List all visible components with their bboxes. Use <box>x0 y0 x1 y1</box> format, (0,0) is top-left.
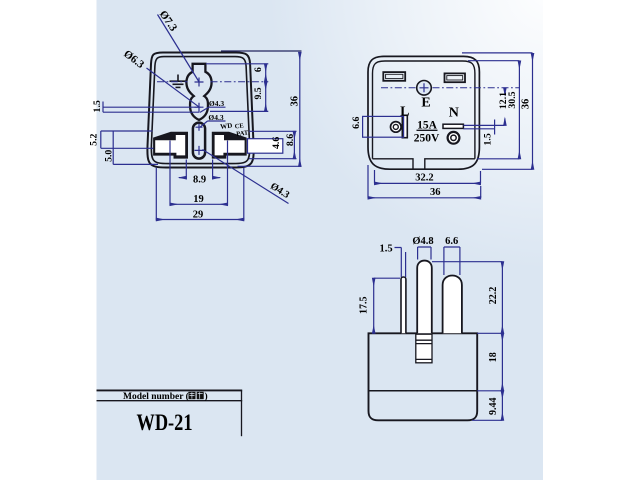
blue drawing panel background <box>97 0 544 480</box>
svg-text:30.5: 30.5 <box>507 91 518 108</box>
back view body outer outline <box>368 56 479 169</box>
svg-text:6.6: 6.6 <box>351 116 362 128</box>
dim 5.2 vline <box>101 131 154 148</box>
svg-text:N: N <box>449 106 459 121</box>
top-left vent inner line <box>386 74 403 78</box>
15A underline <box>417 129 438 131</box>
center stadium slot <box>193 123 205 159</box>
L terminal washer <box>391 122 402 133</box>
center crosses <box>195 78 204 155</box>
right pin <box>443 275 462 333</box>
body bottom extension <box>472 419 502 421</box>
dim 8.9 extension vlines <box>186 160 212 180</box>
svg-text:1.5: 1.5 <box>379 244 392 255</box>
dim 29 extension vlines <box>156 168 244 221</box>
svg-text:5.2: 5.2 <box>89 133 100 145</box>
svg-text:Ø4.3: Ø4.3 <box>209 99 224 108</box>
dim 18 vline <box>501 333 503 391</box>
dim 6 and 9.5 vline <box>265 64 267 112</box>
dim 4.6 white box <box>248 139 283 154</box>
parting line extension <box>477 390 502 392</box>
right 36 vline <box>532 53 534 169</box>
svg-text:8.9: 8.9 <box>193 175 206 186</box>
svg-text:4.6: 4.6 <box>271 137 282 149</box>
right extension line below circle2 <box>210 110 268 112</box>
dim label D6.3 leader <box>147 68 199 107</box>
22.2 top extension <box>432 261 502 263</box>
side view parting line <box>369 390 478 392</box>
left extension line below <box>103 111 200 113</box>
horizontal centerline through top circle <box>157 81 268 83</box>
right extension line top of keyhole <box>206 63 268 65</box>
cross at stadium top <box>196 124 203 131</box>
N bar extension lines <box>463 125 504 128</box>
top-right vent inner line <box>447 76 463 80</box>
svg-text:29: 29 <box>193 209 204 220</box>
svg-text:Model number (: Model number ( <box>123 391 189 402</box>
dim 19 line <box>170 203 228 205</box>
left L/N slot inner opening <box>155 135 185 155</box>
dim 5.0 vline <box>113 131 158 164</box>
dim 36 bottom line <box>368 197 481 199</box>
WD CE PAT micro text <box>220 122 250 138</box>
dim 32.2 line <box>375 182 481 184</box>
right 36 extension lines <box>462 53 533 169</box>
svg-text:WD-21: WD-21 <box>137 410 193 435</box>
L terminal washer inner circle <box>393 124 398 129</box>
svg-text:36: 36 <box>289 96 300 107</box>
top-left vent rectangle <box>383 72 405 81</box>
E screw cross <box>420 83 429 92</box>
CJK glyph 1 <box>189 392 204 399</box>
17.5 top extension <box>374 277 400 279</box>
svg-text:1.5: 1.5 <box>482 133 493 145</box>
svg-text:18: 18 <box>488 352 499 362</box>
svg-text:17.5: 17.5 <box>358 296 369 314</box>
right 36 bottom extension <box>238 165 302 167</box>
dim 1.5 tick <box>494 120 496 135</box>
cross at stadium bottom <box>195 146 204 155</box>
right L/N slot <box>212 132 247 159</box>
svg-text:250V: 250V <box>414 133 440 145</box>
svg-text:36: 36 <box>520 99 531 110</box>
N terminal bar <box>443 124 463 128</box>
right L/N slot inner opening <box>215 135 245 155</box>
dim label D7.3 leader <box>158 15 199 82</box>
body top right extension <box>477 332 502 334</box>
cross at lower circle center <box>195 103 204 112</box>
D4.3 second label underline and leader <box>200 121 226 127</box>
dim 30.5 vline <box>518 61 520 159</box>
svg-text:8.6: 8.6 <box>285 134 296 146</box>
dim 1.5 leader and extension vlines <box>395 248 406 278</box>
dim 8.9 line with arrows <box>179 177 186 179</box>
svg-text:19: 19 <box>193 194 204 205</box>
svg-text:6: 6 <box>253 67 264 72</box>
front view body inner outline <box>151 57 249 164</box>
svg-text:32.2: 32.2 <box>415 173 433 184</box>
svg-text:WD: WD <box>220 122 233 131</box>
side view body <box>369 333 478 420</box>
right 36 top extension <box>221 50 302 52</box>
cross at earth hole center <box>195 78 204 87</box>
front view body outer outline <box>147 53 253 168</box>
N terminal washer inner circle <box>451 135 456 140</box>
dim 29 line <box>156 219 244 221</box>
ground symbol <box>170 75 187 88</box>
earth pin internal base <box>416 334 432 363</box>
svg-text:Ø4.8: Ø4.8 <box>412 236 433 247</box>
back view body inner outline <box>373 61 475 159</box>
E screw circle <box>417 81 432 96</box>
svg-text:E: E <box>421 96 430 111</box>
30.5 extension lines <box>468 61 519 159</box>
L terminal plate <box>402 115 407 137</box>
36 bottom extension vlines <box>368 165 481 198</box>
dim 19 extension vlines <box>170 141 228 206</box>
svg-text:Ø4.3: Ø4.3 <box>208 113 223 122</box>
dim 9.44 vline <box>501 391 503 421</box>
dim 22.2 vline <box>501 262 503 334</box>
svg-text:36: 36 <box>430 187 441 198</box>
middle earth pin <box>417 261 432 334</box>
table right border <box>241 390 243 436</box>
left tick vline 1.5 <box>102 102 104 113</box>
left extension line at circle2 center <box>103 106 201 108</box>
svg-text:1.5: 1.5 <box>92 100 103 112</box>
svg-text:15A: 15A <box>417 119 438 131</box>
dim 6.6 box <box>363 116 404 137</box>
left flat pin <box>401 277 406 333</box>
left L/N slot <box>153 132 188 159</box>
D4.3 upper label underline and leader <box>200 107 226 112</box>
32.2 extension vlines <box>375 170 481 183</box>
svg-text:): ) <box>205 391 208 402</box>
dim 8.6 vline <box>293 131 295 158</box>
dim 6.6 bracket <box>444 247 460 275</box>
table header top rule <box>97 389 243 391</box>
svg-text:9.5: 9.5 <box>253 87 264 99</box>
top-right vent rectangle <box>445 73 466 82</box>
svg-text:22.2: 22.2 <box>488 287 499 305</box>
N terminal washer <box>448 132 460 144</box>
svg-text:6.6: 6.6 <box>445 236 458 247</box>
dim 36 vline <box>299 52 301 166</box>
earth keyhole slot <box>186 64 211 120</box>
table header bottom rule <box>97 400 243 402</box>
dim label D4.3 bottom leader <box>203 150 289 204</box>
dim D4.8 bracket <box>418 247 431 260</box>
dim 12.1 vline <box>504 88 506 95</box>
svg-text:9.44: 9.44 <box>488 398 499 416</box>
back view inner bottom parting line with tab <box>373 159 475 169</box>
dim 8.6 extensions <box>249 131 297 158</box>
svg-text:5.0: 5.0 <box>104 150 115 162</box>
svg-text:L: L <box>400 105 409 120</box>
centerline through E screw <box>381 87 519 89</box>
dim 17.5 vline <box>373 278 375 333</box>
